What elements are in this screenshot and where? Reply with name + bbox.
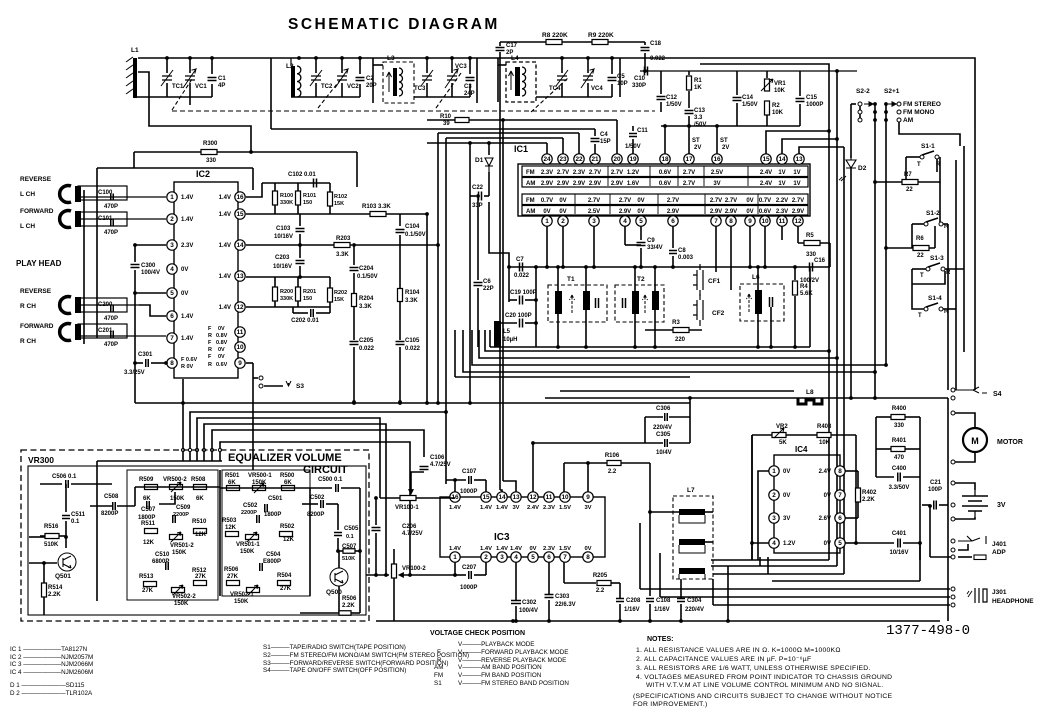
svg-text:2.7V: 2.7V [557,170,569,176]
svg-text:VR501-1: VR501-1 [236,542,260,548]
pin IC1-21 [590,154,600,164]
svg-text:FM: FM [526,198,535,204]
svg-text:CF2: CF2 [712,310,725,317]
svg-text:S1-4: S1-4 [928,295,942,302]
wire pin24 up [546,143,548,154]
battery 3V [962,496,988,511]
svg-text:15: 15 [762,156,770,163]
svg-text:3.3/25V: 3.3/25V [124,370,145,376]
svg-text:VC4: VC4 [591,86,603,92]
pin IC3-6 [544,552,554,562]
svg-text:R502: R502 [280,524,295,530]
svg-text:3: 3 [170,242,174,249]
capacitor C17 2P [499,42,501,46]
svg-text:C17: C17 [506,43,518,49]
svg-text:0V: 0V [746,209,753,215]
svg-text:0V: 0V [637,198,644,204]
svg-text:2.4V: 2.4V [760,170,772,176]
svg-text:R506: R506 [342,596,357,602]
wire pin22 up [578,133,580,154]
pin IC2-9 [235,358,245,368]
svg-text:0V: 0V [181,291,188,297]
svg-text:R2: R2 [772,103,780,109]
svg-text:2.7V: 2.7V [667,198,679,204]
svg-text:0.7V: 0.7V [759,198,771,204]
wire pin20 line y120 [470,119,617,121]
svg-text:12K: 12K [283,537,295,543]
wire L1 secondary [138,72,251,152]
svg-text:C103: C103 [276,226,291,232]
ceramic filter CF1 [693,264,703,296]
capacitor C511 0.1 [65,484,67,512]
svg-text:M: M [971,436,979,446]
capacitor C304 220/4V [677,599,685,602]
svg-text:1V: 1V [778,170,785,176]
svg-text:0V: 0V [824,493,831,499]
svg-text:6K: 6K [284,480,292,486]
svg-text:0.022: 0.022 [650,56,666,62]
wire pin9 drop into EQ box [252,363,254,470]
svg-text:1/16V: 1/16V [624,607,640,613]
pin IC1-7 [711,216,721,226]
wire bundle t2 [190,412,446,484]
pin IC4-8 [835,466,845,476]
pin IC1-24 [542,154,552,164]
svg-text:220/4V: 220/4V [653,425,672,431]
svg-text:S1-3: S1-3 [930,255,944,262]
wire y126 rail [661,125,800,127]
svg-text:IC 3 ——————NJM2066M: IC 3 ——————NJM2066M [10,661,93,668]
svg-text:1V: 1V [778,181,785,187]
wire C7 right column [535,267,537,347]
svg-text:AM: AM [526,209,535,215]
svg-text:0V: 0V [543,209,550,215]
svg-text:VR500-2: VR500-2 [163,477,187,483]
svg-text:REVERSE: REVERSE [20,288,52,295]
svg-text:0.1: 0.1 [346,534,354,540]
svg-text:TC3: TC3 [414,86,426,92]
svg-text:3V: 3V [584,505,591,511]
svg-text:1800P: 1800P [264,512,281,518]
svg-text:1.4V: 1.4V [449,505,461,511]
wire S1-2 frame [912,223,924,225]
svg-text:FORWARD: FORWARD [20,323,54,330]
svg-text:10P: 10P [617,81,628,87]
svg-text:12K: 12K [225,525,237,531]
svg-text:FORWARD: FORWARD [20,208,54,215]
capacitor C14 1/50V [736,71,738,95]
equalizer inner frame [28,466,366,615]
wire IC4 pin1 left [758,471,769,560]
svg-text:5.6K: 5.6K [800,291,813,297]
svg-text:3.3/50V: 3.3/50V [889,485,910,491]
svg-text:10/16V: 10/16V [274,234,293,240]
wire pin23 up [562,138,564,154]
svg-text:R9 220K: R9 220K [588,32,614,39]
svg-text:C504: C504 [266,552,281,558]
potentiometer VR501-1 150K [246,535,259,540]
capacitor C202 0.01 [293,312,308,314]
svg-text:2.2K: 2.2K [48,592,61,598]
capacitor C108 1/16V [646,599,654,602]
svg-text:13: 13 [236,273,244,280]
pin IC1-22 [574,154,584,164]
pin IC1-5 [636,216,646,226]
svg-text:VR300: VR300 [28,455,54,465]
svg-text:L4: L4 [511,55,519,62]
svg-text:VR500-1: VR500-1 [248,473,272,479]
svg-text:18: 18 [661,156,669,163]
wire pin15 to right [766,131,829,154]
svg-text:9: 9 [238,360,242,367]
wire AM down [899,122,960,146]
svg-text:1/50V: 1/50V [625,144,641,150]
svg-text:12K: 12K [195,532,207,538]
svg-text:2.7V: 2.7V [588,198,600,204]
svg-text:C102 0.01: C102 0.01 [288,172,316,178]
wire x829 down [828,351,830,560]
wire pin13 to right [799,147,844,154]
potentiometer VR1 10K [766,71,768,78]
pin IC3-4 [511,552,521,562]
svg-text:5K: 5K [779,440,787,446]
wire cell4 left edge [497,58,499,102]
svg-text:R: R [208,333,212,339]
svg-text:6K: 6K [196,496,204,502]
svg-text:1.4V: 1.4V [181,217,193,223]
svg-text:100P: 100P [928,487,942,493]
pin IC3-15 [481,492,491,502]
capacitor C204 0.1/50V [353,245,355,265]
capacitor C205 0.022 [350,342,359,345]
svg-text:150K: 150K [240,549,255,555]
svg-text:0V: 0V [824,541,831,547]
svg-text:R CH: R CH [20,338,36,345]
svg-text:3: 3 [592,218,596,225]
wire R103 drop x427 [426,213,428,403]
pin IC1-17 [684,154,694,164]
pin IC4-6 [835,513,845,523]
coil L3 dashed box [383,62,414,103]
svg-text:330: 330 [894,423,905,429]
svg-text:C19 100P: C19 100P [510,290,537,296]
svg-text:R103 3.3K: R103 3.3K [362,204,391,210]
svg-text:SCHEMATIC DIAGRAM: SCHEMATIC DIAGRAM [288,16,500,33]
svg-text:C106: C106 [430,455,445,461]
pin IC2-12 [235,302,245,312]
svg-text:R516: R516 [44,524,59,530]
svg-text:0V: 0V [218,354,225,360]
svg-text:15K: 15K [334,201,344,207]
svg-text:IC3: IC3 [494,532,510,543]
resistor R201 150 [297,277,299,287]
svg-text:2.7V: 2.7V [683,170,695,176]
wire x650 drop [649,463,651,596]
pin IC3-16 [450,492,460,502]
svg-text:C501: C501 [268,496,283,502]
IC1 voltage table lower [522,194,808,205]
svg-text:2.4V: 2.4V [527,505,539,511]
wire cell4 right edge [619,58,621,97]
svg-text:C104: C104 [405,224,420,230]
svg-text:R: R [208,362,212,368]
svg-text:F: F [208,354,212,360]
svg-text:F: F [208,326,212,332]
resistor R2 10K [765,101,770,115]
svg-text:C510: C510 [155,552,170,558]
svg-text:2: 2 [772,492,776,499]
capacitor C22 33P [488,172,490,196]
svg-text:0.022: 0.022 [514,273,530,279]
pin IC1-23 [558,154,568,164]
svg-text:15P: 15P [600,139,611,145]
svg-text:R201: R201 [303,289,316,295]
capacitor C101 470P [78,212,127,226]
resistor R8 220K [546,40,562,45]
pin IC3-9 [583,492,593,502]
wire corner x829 [700,64,829,351]
resistor R1 1K [688,71,690,75]
svg-text:0V: 0V [181,267,188,273]
svg-text:2.9V: 2.9V [573,181,585,187]
svg-text:C14: C14 [742,95,754,101]
svg-text:1.5V: 1.5V [559,505,571,511]
wire eq row1R [220,487,310,489]
svg-text:3: 3 [500,554,504,561]
wire pin16 network [246,183,262,197]
svg-text:2.9V: 2.9V [557,181,569,187]
svg-text:E800P: E800P [263,559,281,565]
wire pin10 down [764,226,766,267]
pin IC4-2 [769,490,779,500]
wire cell1 drop [189,97,191,105]
wire VR100-2 down to rail [393,578,395,621]
svg-text:2.2: 2.2 [596,588,605,594]
svg-text:24P: 24P [464,91,475,97]
svg-text:14: 14 [778,156,786,163]
svg-text:C303: C303 [555,594,570,600]
svg-text:150: 150 [303,200,312,206]
wire long vertical x500 [499,52,501,490]
svg-text:12: 12 [529,494,537,501]
capacitor C203 10/16V [299,245,301,258]
wire cell2 bottom [291,96,360,98]
svg-text:C4: C4 [600,132,608,138]
svg-text:R508: R508 [191,477,206,483]
wire long vertical x503 [502,120,504,481]
pin IC3-12 [528,492,538,502]
wire bus y398 L8 line [545,397,948,399]
wire pin11 down [781,226,783,240]
capacitor C103 10/16V [299,214,301,226]
svg-text:100/4V: 100/4V [519,608,538,614]
svg-text:R403: R403 [817,424,832,430]
svg-text:510K: 510K [44,542,59,548]
svg-text:11: 11 [546,494,553,501]
wire S1-1 to column [925,157,940,182]
wire pin20 up [616,120,618,154]
wire C306 net [689,398,691,417]
pin IC2-3 [167,240,177,250]
trimmer TC2 [315,58,317,73]
svg-text:F 0.6V: F 0.6V [181,357,198,363]
svg-text:R514: R514 [48,585,63,591]
wire R516 left [29,536,45,538]
wire corner x837 [836,71,838,358]
potentiometer VR100-1 [400,496,416,501]
svg-text:12: 12 [794,218,802,225]
svg-text:1.4V: 1.4V [181,336,193,342]
svg-text:2.7V: 2.7V [611,170,623,176]
svg-text:0.8V: 0.8V [216,340,228,346]
pin IC1-1 [542,216,552,226]
wire right column vertical [947,398,949,621]
varicap VC3 [451,58,453,73]
wire pin7 down [715,226,717,272]
trimmer TC3 [426,58,428,73]
wire long vertical x438 [437,133,439,403]
capacitor C13 3.3/50V [685,111,694,114]
wire S1-3 frame [912,268,926,270]
svg-text:1.2V: 1.2V [783,541,795,547]
svg-text:7: 7 [563,554,567,561]
svg-text:10K: 10K [774,88,786,94]
wire R8 R9 top [500,41,645,43]
pin IC2-16 [235,192,245,202]
svg-text:R102: R102 [334,194,347,200]
pin IC1-13 [794,154,804,164]
wire pin5 to C401 [845,542,856,544]
svg-text:2.9V: 2.9V [710,209,722,215]
wire bus y391 [560,390,794,392]
svg-text:24: 24 [543,156,551,163]
svg-text:R205: R205 [593,573,608,579]
equalizer internal frames [127,470,218,600]
svg-text:C506 0.1: C506 0.1 [52,474,77,480]
svg-text:R513: R513 [139,574,154,580]
capacitor C1 4P [211,58,213,74]
varicap VC4 [587,58,589,73]
pin IC1-3 [589,216,599,226]
pin IC4-5 [835,538,845,548]
wire L7 winding1 left [650,511,679,513]
svg-text:16: 16 [236,194,244,201]
wire bundle t4 [204,424,386,575]
svg-text:L7: L7 [687,487,695,494]
svg-text:C16: C16 [814,258,826,264]
wire pin12 up [532,443,534,492]
svg-text:C7: C7 [516,257,524,263]
pin IC1-12 [793,216,803,226]
svg-text:R101: R101 [303,193,316,199]
pin IC3-14 [497,492,507,502]
pin IC2-6 [167,311,177,321]
svg-text:R106: R106 [605,453,620,459]
svg-text:V———FM BAND POSITION: V———FM BAND POSITION [458,672,542,679]
svg-text:VR100-2: VR100-2 [402,566,426,572]
svg-text:HEADPHONE: HEADPHONE [992,598,1034,605]
svg-text:V———AM BAND POSITION: V———AM BAND POSITION [458,664,542,671]
op-amp IC3 body [440,497,605,557]
svg-text:1/50V: 1/50V [666,102,682,108]
svg-text:D1: D1 [475,157,484,164]
svg-text:1.5V: 1.5V [559,546,571,552]
svg-text:470P: 470P [104,230,118,236]
resistor R204 3.3K [352,294,357,307]
svg-text:2.3V: 2.3V [543,546,555,552]
varicap VC1 [189,58,191,73]
svg-text:C304: C304 [687,598,702,604]
pin IC3-10 [560,492,570,502]
svg-text:V———FM STEREO BAND POSITION: V———FM STEREO BAND POSITION [458,680,569,687]
svg-text:21: 21 [591,156,599,163]
svg-text:0.003: 0.003 [678,255,694,261]
tape head forward L [60,211,71,228]
wire loop drop x728 [727,566,729,621]
svg-text:0V: 0V [559,209,566,215]
pin IC2-2 [167,214,177,224]
trimmer TC4 [561,58,563,73]
wire head ground [83,190,85,344]
svg-text:L5: L5 [503,329,511,335]
wire IC4 bottom runs [711,559,829,561]
svg-text:Q501: Q501 [55,573,71,580]
svg-text:T2: T2 [637,276,645,283]
svg-text:2: 2 [170,216,174,223]
svg-text:330: 330 [206,158,217,164]
wire bundle t5 [212,430,424,457]
svg-text:0V: 0V [529,546,536,552]
svg-text:8: 8 [586,554,590,561]
svg-text:6: 6 [547,554,551,561]
svg-text:ST: ST [692,138,700,144]
svg-text:C105: C105 [405,338,420,344]
wire bundle t3 [197,418,380,498]
svg-text:C5: C5 [617,74,625,80]
transistor Q500 [330,568,348,586]
coil L4 dashed box [506,62,536,102]
svg-text:7: 7 [714,218,718,225]
svg-text:C306: C306 [656,406,671,412]
pin IC2-14 [235,240,245,250]
wire S1-1 frame [906,156,920,158]
wire motor leads [955,413,975,428]
wire Q500 collector [338,551,340,568]
svg-text:0.8V: 0.8V [216,333,228,339]
svg-text:10/16V: 10/16V [889,550,908,556]
svg-text:7: 7 [170,335,174,342]
wire L7 to headphone [639,523,641,589]
svg-text:4: 4 [623,218,627,225]
svg-text:1: 1 [170,194,174,201]
svg-text:R511: R511 [141,521,156,527]
svg-text:F: F [208,340,212,346]
trimmer TC1 [166,58,168,73]
svg-text:C10: C10 [634,76,646,82]
svg-text:1/16V: 1/16V [654,607,670,613]
svg-text:ST: ST [720,138,728,144]
svg-text:17: 17 [685,156,693,163]
capacitor C4 15P [594,129,596,136]
capacitor C8 0.003 [672,226,674,248]
op-amp IC4 body [774,455,840,553]
resistor R402 2.2K [856,488,861,502]
capacitor C11 1/50V [632,126,634,131]
svg-text:8200P: 8200P [101,511,118,517]
capacitor C15 1000P [799,71,801,96]
svg-text:PLAY HEAD: PLAY HEAD [16,259,62,268]
svg-text:2: 2 [561,218,565,225]
